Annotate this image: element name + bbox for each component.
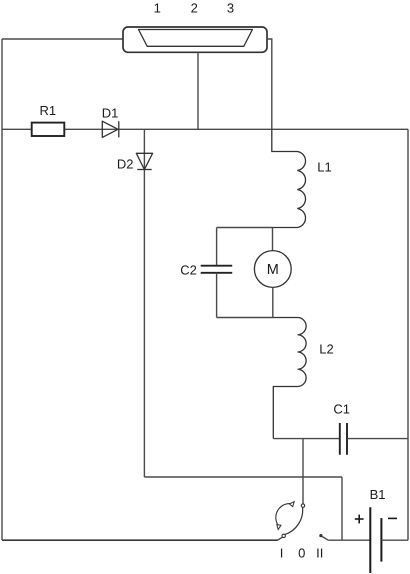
wire vertical down to contact II lead (341, 477, 343, 540)
svg-text:L2: L2 (319, 342, 333, 357)
capacitor C1 (340, 423, 347, 455)
wire bottom tee (C2 bottom to motor bottom) (217, 317, 273, 319)
capacitor C2 (201, 266, 233, 273)
switch arrow head top (290, 502, 295, 507)
wire C2 upper stem (216, 228, 218, 266)
svg-text:B1: B1 (370, 487, 386, 502)
svg-text:D2: D2 (117, 157, 134, 172)
switch contact II dot (319, 534, 322, 537)
wire horizontal to switch contact II (144, 476, 342, 478)
svg-text:R1: R1 (39, 103, 56, 118)
wire switch stem (crossover at y=477) (302, 439, 304, 504)
svg-text:0: 0 (298, 546, 305, 561)
wire C2 top tee (217, 227, 273, 229)
battery plus sign (355, 515, 364, 524)
svg-text:3: 3 (227, 1, 234, 16)
pin 2 wire (connector bottom to main node) (197, 52, 199, 129)
wire main horizontal node (left edge to right edge) (2, 128, 408, 130)
svg-text:I: I (280, 546, 284, 561)
inductor L2 (273, 318, 306, 439)
switch arrow arc (276, 504, 293, 526)
wire C2 lower stem (216, 273, 218, 318)
switch contact II lead (322, 536, 328, 540)
svg-text:L1: L1 (317, 160, 331, 175)
resistor R1 (32, 123, 65, 136)
wire bottom left horizontal (2, 539, 278, 541)
svg-text:C1: C1 (333, 401, 350, 416)
switch arrow head bottom (277, 525, 281, 530)
wire top from left edge to connector (2, 38, 123, 40)
wire battery to right edge (381, 539, 408, 541)
wire D2 branch vertical (143, 129, 145, 477)
wire C1 to right edge (347, 438, 408, 440)
svg-text:II: II (316, 546, 323, 561)
wire L1 bottom to motor top (272, 228, 274, 251)
diode D2 (136, 153, 152, 169)
connector trapezoid inset (139, 30, 253, 47)
svg-text:M: M (267, 262, 279, 278)
svg-text:D1: D1 (102, 106, 119, 121)
battery minus sign (388, 517, 397, 519)
switch pivot circle (301, 504, 304, 507)
switch contact I circle (282, 534, 285, 537)
inductor L1 (272, 129, 306, 227)
svg-text:2: 2 (191, 1, 198, 16)
wire L2 bottom to C1 (273, 438, 340, 440)
switch contact I lead (278, 537, 283, 540)
pin 3 wire (connector right, down to main node) (267, 39, 272, 129)
wire bottom right to battery (328, 539, 370, 541)
battery B1 plates (370, 507, 381, 573)
wire right edge vertical (407, 129, 409, 540)
wire motor bottom stem (272, 287, 274, 317)
wire left edge vertical (1, 39, 3, 540)
switch blade arc (285, 507, 303, 534)
svg-text:C2: C2 (180, 263, 197, 278)
svg-text:1: 1 (154, 1, 161, 16)
motor M circle (254, 251, 291, 288)
diode D1 (102, 121, 119, 137)
connector body (123, 27, 267, 52)
